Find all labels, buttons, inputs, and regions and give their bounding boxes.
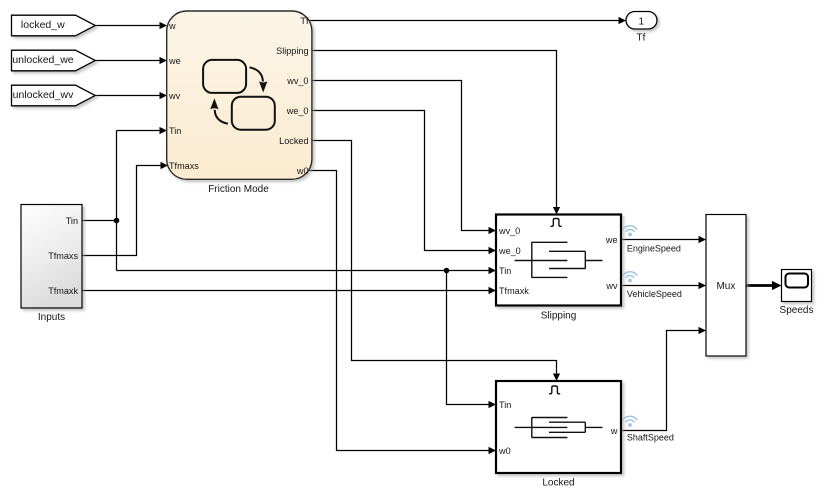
- svg-text:Tfmaxs: Tfmaxs: [169, 161, 199, 171]
- junction node Tin branch at Inputs: [114, 218, 120, 224]
- svg-text:Inputs: Inputs: [38, 312, 65, 323]
- svg-text:unlocked_we: unlocked_we: [12, 54, 73, 66]
- arrowhead into Locked trigger port: [553, 374, 560, 382]
- svg-text:wv: wv: [605, 281, 618, 291]
- arrowhead into chart w: [160, 22, 168, 29]
- wire Slipping trigger: chart Slipping output to Slipping block trigger: [311, 51, 557, 208]
- svg-text:ShaftSpeed: ShaftSpeed: [627, 433, 674, 443]
- chart icon state 2: [232, 97, 275, 130]
- arrowhead into Slipping trigger port: [553, 207, 560, 215]
- from tag unlocked_wv: [12, 85, 96, 106]
- svg-text:Tf: Tf: [637, 33, 646, 44]
- Locked clutch icon: [515, 417, 603, 438]
- from tag locked_w: [12, 15, 96, 36]
- Mux block: [706, 215, 746, 357]
- wire ShaftSpeed: Locked w to Mux input 3: [621, 331, 699, 431]
- wireless logging badge ShaftSpeed: [623, 416, 637, 427]
- arrowhead into chart we: [160, 57, 168, 64]
- arrowhead into chart wv: [160, 92, 168, 99]
- arrowhead into Speeds scope: [772, 281, 782, 290]
- subsystem block Inputs: [21, 205, 82, 309]
- Locked trigger pulse symbol: [549, 386, 560, 394]
- svg-text:Tin: Tin: [499, 400, 511, 410]
- wire unlocked_wv tag to chart input wv: [96, 95, 161, 97]
- wire wv_0: chart output to Slipping wv_0: [311, 81, 489, 231]
- svg-text:Tfmaxk: Tfmaxk: [499, 286, 529, 296]
- wire EngineSpeed: Slipping we to Mux input 1: [621, 239, 699, 241]
- svg-text:Friction Mode: Friction Mode: [208, 184, 269, 195]
- svg-text:EngineSpeed: EngineSpeed: [627, 244, 681, 254]
- chart icon transition arrow right: [250, 67, 268, 92]
- svg-text:Tfmaxs: Tfmaxs: [48, 251, 78, 261]
- svg-text:w: w: [610, 426, 618, 436]
- svg-text:Speeds: Speeds: [780, 305, 814, 316]
- wire locked_w tag to chart input w: [96, 25, 161, 27]
- arrowhead into chart Tfmaxs: [161, 162, 169, 169]
- junction node Tin branch at Slipping: [444, 268, 450, 274]
- arrowhead into Slipping we_0: [489, 247, 497, 254]
- svg-text:wv_0: wv_0: [498, 226, 520, 236]
- arrowhead into Locked Tin: [489, 401, 497, 408]
- arrowhead into Mux input 3: [699, 327, 707, 334]
- Slipping trigger pulse symbol: [551, 218, 562, 226]
- svg-text:Mux: Mux: [716, 281, 735, 292]
- chart icon transition arrow left: [210, 98, 228, 124]
- svg-text:Slipping: Slipping: [276, 46, 308, 56]
- wire VehicleSpeed: Slipping wv to Mux input 2: [621, 285, 699, 287]
- outport block 1: [626, 12, 657, 30]
- chart icon state 1: [203, 60, 246, 93]
- arrowhead into Mux input 2: [699, 282, 707, 289]
- svg-text:Tfmaxk: Tfmaxk: [48, 286, 78, 296]
- Slipping clutch icon: [515, 242, 603, 278]
- wireless logging badge EngineSpeed: [623, 226, 637, 237]
- arrowhead into Slipping Tfmaxk: [489, 287, 497, 294]
- svg-text:1: 1: [639, 17, 645, 28]
- wire unlocked_we tag to chart input we: [96, 60, 161, 62]
- wire Tfmaxs: Inputs to chart Tfmaxs: [82, 166, 162, 256]
- svg-text:we_0: we_0: [498, 246, 521, 256]
- svg-text:we_0: we_0: [286, 106, 309, 116]
- arrowhead into Slipping wv_0: [489, 227, 497, 234]
- wire Tfmaxk: Inputs to Slipping Tfmaxk: [82, 290, 489, 292]
- svg-text:Slipping: Slipping: [541, 311, 577, 322]
- arrowhead into chart Tin: [160, 127, 168, 134]
- stateflow chart block Friction Mode: [167, 11, 312, 179]
- svg-text:wv_0: wv_0: [286, 76, 308, 86]
- scope screen icon: [786, 274, 809, 288]
- wire Tf: chart output to outport Tf: [310, 20, 620, 22]
- wireless logging badge VehicleSpeed: [623, 272, 637, 283]
- scope block Speeds: [782, 270, 812, 302]
- wire we_0: chart output to Slipping we_0: [311, 111, 489, 251]
- svg-text:we: we: [168, 56, 181, 66]
- svg-text:we: we: [605, 235, 618, 245]
- wire Tin net: Inputs to chart Tin, Slipping Tin and Locked Tin: [82, 131, 489, 405]
- svg-text:w0: w0: [296, 166, 309, 176]
- wire Mux output to Speeds scope (thick): [746, 284, 773, 287]
- svg-text:w0: w0: [498, 446, 511, 456]
- arrowhead into Slipping Tin: [489, 267, 497, 274]
- arrowhead into Mux input 1: [699, 236, 707, 243]
- svg-text:VehicleSpeed: VehicleSpeed: [627, 289, 682, 299]
- subsystem block Slipping: [496, 215, 621, 306]
- svg-text:unlocked_wv: unlocked_wv: [13, 89, 74, 101]
- svg-text:Locked: Locked: [279, 136, 308, 146]
- subsystem block Locked: [496, 381, 621, 473]
- svg-text:w: w: [168, 21, 176, 31]
- svg-text:Tf: Tf: [300, 16, 309, 26]
- wire Locked trigger: chart Locked output to Locked block trigger: [311, 141, 557, 375]
- wire w0: chart output to Locked w0: [308, 171, 490, 451]
- arrowhead into Locked w0: [489, 447, 497, 454]
- svg-text:Tin: Tin: [169, 126, 181, 136]
- svg-text:Tin: Tin: [499, 266, 511, 276]
- svg-text:locked_w: locked_w: [21, 19, 65, 31]
- arrowhead into outport Tf: [619, 17, 627, 24]
- svg-text:Tin: Tin: [66, 216, 78, 226]
- svg-text:Locked: Locked: [542, 478, 574, 489]
- svg-text:wv: wv: [168, 91, 181, 101]
- from tag unlocked_we: [12, 50, 96, 71]
